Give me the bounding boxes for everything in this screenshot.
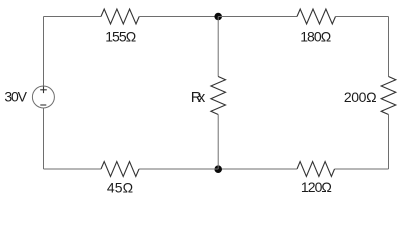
wire top-right segment bbox=[218, 16, 297, 18]
wire middle upper segment bbox=[217, 17, 219, 77]
wire right upper segment bbox=[388, 17, 390, 77]
resistor R5 45ohm bbox=[101, 162, 139, 177]
junction node top bbox=[214, 13, 222, 21]
resistor R2 180ohm bbox=[297, 9, 336, 24]
svg-text:30V: 30V bbox=[4, 88, 27, 104]
wire bottom-left segment bbox=[44, 168, 102, 170]
wire middle lower segment bbox=[217, 115, 219, 170]
junction node bottom bbox=[214, 165, 222, 173]
voltage source V1 30V bbox=[32, 86, 54, 108]
resistor R4 120ohm bbox=[297, 162, 335, 177]
wire left upper segment bbox=[43, 17, 45, 87]
resistor R3 200ohm bbox=[381, 77, 396, 115]
svg-text:155Ω: 155Ω bbox=[105, 29, 136, 45]
svg-text:120Ω: 120Ω bbox=[301, 179, 332, 195]
wire top-far-right segment bbox=[336, 16, 389, 18]
wire bottom-far-right segment bbox=[335, 168, 389, 170]
svg-text:45Ω: 45Ω bbox=[107, 180, 133, 196]
wire top-middle segment bbox=[139, 16, 218, 18]
resistor Rx bbox=[211, 77, 226, 115]
wire bottom-right segment bbox=[218, 168, 297, 170]
resistor R1 155ohm bbox=[101, 9, 139, 24]
wire right lower segment bbox=[388, 115, 390, 170]
svg-text:200Ω: 200Ω bbox=[344, 89, 377, 105]
svg-text:180Ω: 180Ω bbox=[300, 29, 331, 45]
wire bottom-middle segment bbox=[139, 168, 218, 170]
wire top-left segment bbox=[44, 16, 102, 18]
wire left lower segment bbox=[43, 108, 45, 169]
svg-text:Rx: Rx bbox=[191, 89, 206, 106]
